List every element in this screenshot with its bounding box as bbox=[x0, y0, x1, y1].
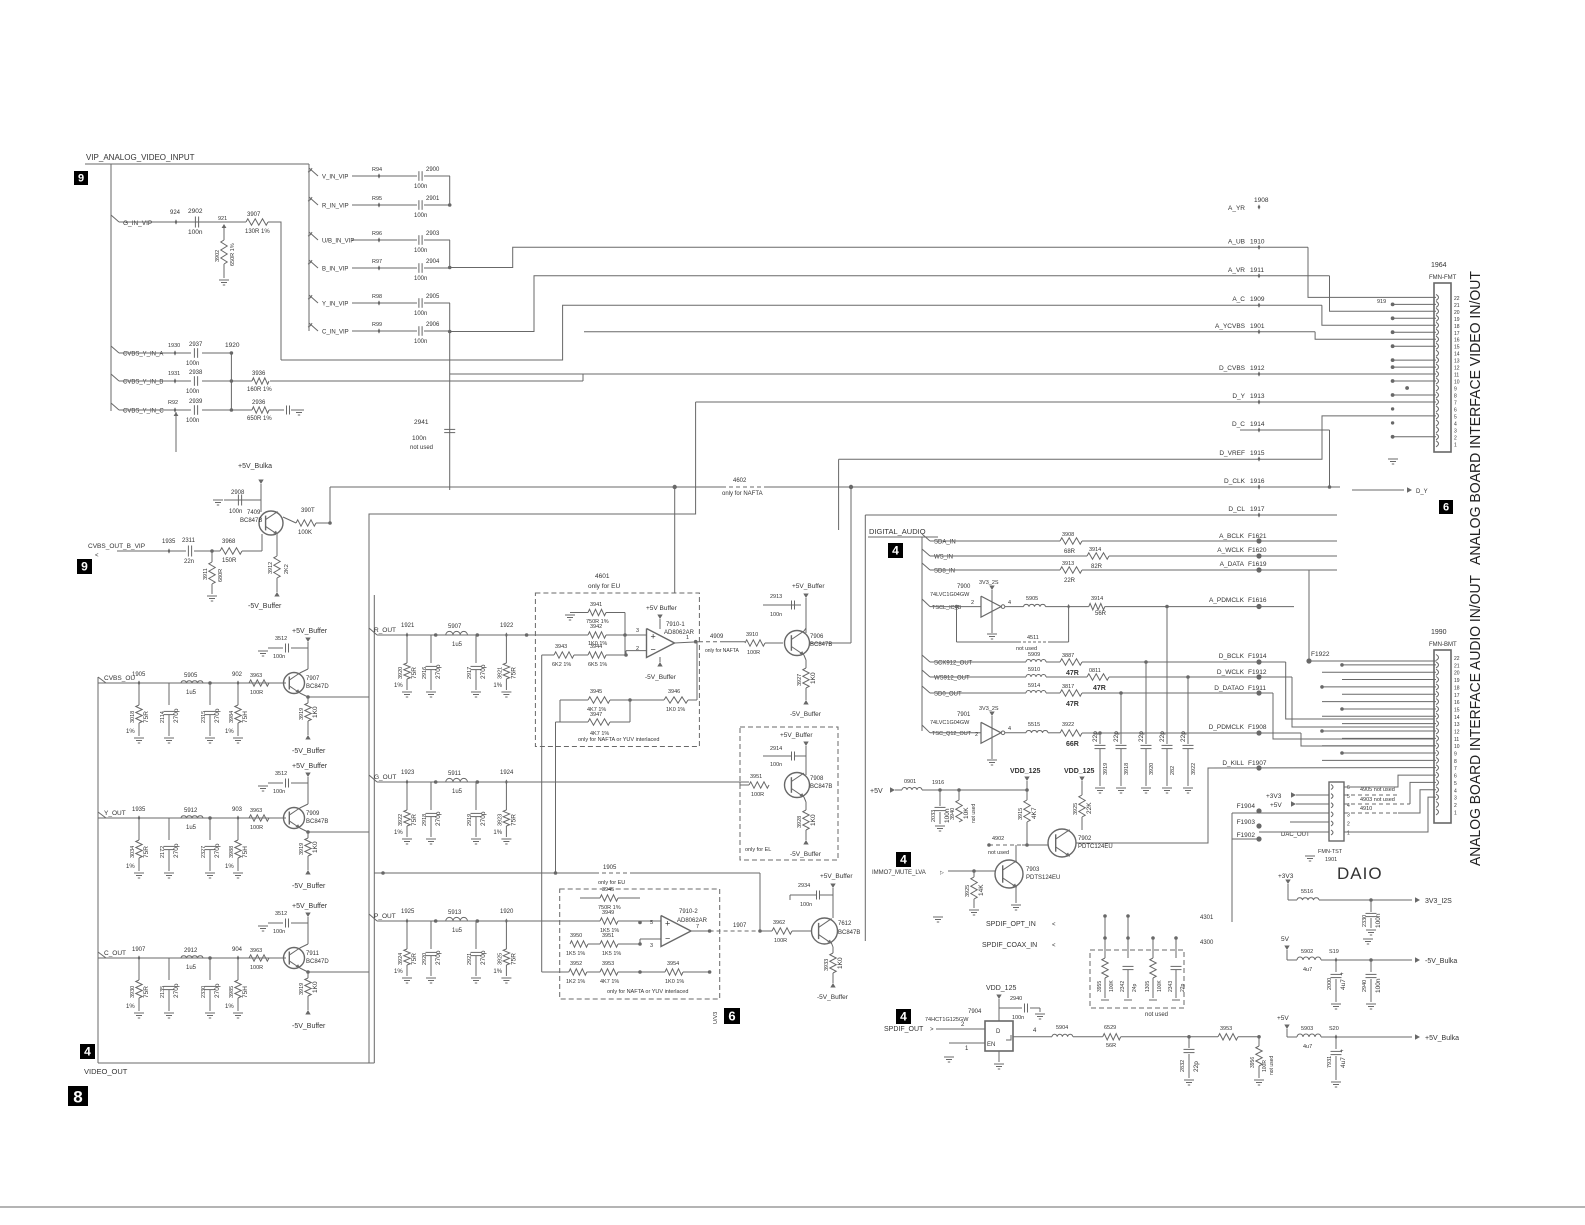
svg-text:3953: 3953 bbox=[602, 961, 614, 967]
svg-text:B_IN_VIP: B_IN_VIP bbox=[322, 267, 348, 273]
svg-text:>: > bbox=[930, 1027, 934, 1033]
wire emitter out to bus bbox=[306, 695, 310, 699]
svg-text:2941: 2941 bbox=[414, 419, 429, 426]
svg-text:5909: 5909 bbox=[1028, 652, 1040, 658]
wire feed 1990 pin 15 bbox=[1342, 708, 1436, 710]
svg-text:100n: 100n bbox=[414, 184, 427, 190]
svg-text:7910-2: 7910-2 bbox=[679, 909, 698, 915]
svg-text:1916: 1916 bbox=[1250, 478, 1265, 485]
row R_OUT bbox=[369, 628, 377, 635]
ground 282 bbox=[1162, 787, 1172, 789]
svg-text:904: 904 bbox=[232, 947, 243, 953]
capacitor small + gnd on CVBS_C bbox=[269, 409, 284, 411]
svg-text:18: 18 bbox=[1454, 685, 1460, 691]
svg-text:A_DATA: A_DATA bbox=[1220, 561, 1245, 568]
svg-text:2033: 2033 bbox=[931, 810, 937, 822]
dashed box only for NAFTA lower bbox=[560, 889, 720, 999]
node R92 bbox=[174, 407, 177, 412]
page ref 4 mute bbox=[896, 852, 911, 867]
pin 17 connector 1990 bbox=[1436, 691, 1439, 697]
svg-text:3912: 3912 bbox=[268, 562, 274, 574]
wire feedback verticals box1 to box3 bbox=[541, 655, 543, 972]
svg-text:7908: 7908 bbox=[810, 776, 824, 782]
svg-text:-5V_Bulka: -5V_Bulka bbox=[1425, 958, 1457, 965]
capacitor C2903 100n bbox=[418, 235, 420, 245]
pin 6 connector 1964 bbox=[1436, 406, 1439, 412]
wire mute collector bbox=[1015, 845, 1017, 861]
svg-text:FMN-FMT: FMN-FMT bbox=[1429, 275, 1457, 281]
svg-text:7612: 7612 bbox=[838, 921, 852, 927]
svg-text:SCK912_OUT: SCK912_OUT bbox=[934, 661, 973, 667]
inductor 5516 bbox=[1297, 898, 1319, 900]
svg-text:3919: 3919 bbox=[299, 708, 305, 720]
resistor 3921 75R R_OUT bbox=[505, 635, 507, 663]
svg-text:3925: 3925 bbox=[965, 885, 971, 897]
svg-text:1907: 1907 bbox=[132, 947, 146, 953]
svg-text:3512: 3512 bbox=[275, 911, 287, 917]
svg-text:VDD_125: VDD_125 bbox=[986, 985, 1016, 992]
svg-text:1%: 1% bbox=[225, 729, 234, 735]
resistor R3913 22R bbox=[1060, 567, 1082, 573]
ground 2330 bbox=[1366, 929, 1376, 931]
wire D_DATAO corner to 1990 bbox=[1273, 693, 1434, 739]
capacitor 7931 4u7 bbox=[1335, 1037, 1337, 1049]
wire stub pin 8 bbox=[1393, 394, 1436, 396]
resistor 3915 4K7 bbox=[1026, 781, 1028, 800]
svg-text:100n: 100n bbox=[229, 509, 242, 515]
capacitor 282 22p bbox=[1165, 605, 1169, 609]
svg-text:+5V: +5V bbox=[1270, 802, 1282, 809]
svg-text:22p: 22p bbox=[1138, 731, 1145, 742]
svg-text:<: < bbox=[1052, 922, 1056, 928]
resistor 3910 100R bbox=[745, 640, 765, 646]
wire mute net 4902 not used bbox=[989, 844, 1022, 846]
svg-text:9: 9 bbox=[81, 560, 88, 574]
svg-text:3922: 3922 bbox=[1191, 763, 1197, 775]
svg-text:-5V_Buffer: -5V_Buffer bbox=[292, 748, 326, 755]
svg-text:12: 12 bbox=[1454, 366, 1460, 372]
svg-text:4: 4 bbox=[900, 1010, 907, 1024]
pin 15 connector 1990 bbox=[1436, 706, 1439, 712]
svg-text:270p: 270p bbox=[173, 708, 180, 723]
inductor 5905 bbox=[1005, 606, 1024, 608]
wire feed 1990 pin 9 bbox=[1342, 752, 1436, 754]
svg-text:2330: 2330 bbox=[201, 986, 207, 998]
svg-text:3910: 3910 bbox=[746, 632, 758, 638]
output row Y_OUT bbox=[98, 812, 106, 818]
wire A_YCVBS bbox=[584, 331, 1315, 333]
wire stub pin 19 bbox=[1393, 317, 1436, 319]
resistor 3951 100R G row bbox=[749, 782, 769, 788]
pin 18 connector 1964 bbox=[1436, 322, 1439, 328]
ground 3018 bbox=[134, 737, 144, 739]
svg-text:1920: 1920 bbox=[500, 909, 514, 915]
power -5V_Buffer row bbox=[305, 1010, 310, 1015]
svg-text:82R: 82R bbox=[1091, 564, 1103, 570]
svg-text:1911: 1911 bbox=[1250, 267, 1264, 274]
svg-text:D_CL: D_CL bbox=[1228, 506, 1245, 513]
svg-text:9: 9 bbox=[1454, 752, 1457, 758]
resistor 3985 75H bbox=[237, 958, 239, 980]
svg-text:1905: 1905 bbox=[603, 865, 617, 871]
capacitor 2000 4u7 electrolytic bbox=[1335, 960, 1337, 972]
ground 7931 bbox=[1331, 1081, 1341, 1083]
svg-text:1%: 1% bbox=[225, 1004, 234, 1010]
pin 2 connector 1964 bbox=[1436, 434, 1439, 440]
svg-text:2940: 2940 bbox=[1010, 996, 1022, 1002]
svg-text:22: 22 bbox=[1454, 656, 1460, 662]
svg-text:270p: 270p bbox=[435, 811, 442, 826]
svg-text:U/B_IN_VIP: U/B_IN_VIP bbox=[322, 239, 354, 245]
pin 14 connector 1990 bbox=[1436, 713, 1439, 719]
svg-text:8: 8 bbox=[1454, 759, 1457, 765]
svg-text:EN: EN bbox=[987, 1042, 995, 1048]
input pin U/B_IN_VIP bbox=[309, 232, 318, 240]
svg-text:2172: 2172 bbox=[160, 846, 166, 858]
resistor 3922 75R G_OUT bbox=[406, 782, 408, 810]
svg-text:D_CLK: D_CLK bbox=[1224, 478, 1246, 485]
svg-text:3949: 3949 bbox=[602, 910, 614, 916]
capacitor 2918 270p G_OUT bbox=[430, 782, 432, 810]
ground cluster bbox=[501, 691, 511, 693]
pin 22 connector 1990 bbox=[1436, 655, 1439, 661]
svg-text:100n: 100n bbox=[1012, 1015, 1024, 1021]
svg-text:22n: 22n bbox=[184, 559, 194, 565]
capacitor 2327 270p bbox=[209, 818, 211, 840]
pin 8 connector 1990 bbox=[1436, 757, 1439, 763]
page ref 9 lower bbox=[77, 559, 92, 574]
svg-text:1%: 1% bbox=[126, 729, 135, 735]
svg-text:1%: 1% bbox=[394, 683, 403, 689]
svg-text:2917: 2917 bbox=[467, 667, 473, 679]
wire G row to A_C feed bbox=[268, 222, 281, 360]
inductor L2912 1u5 bbox=[181, 956, 203, 958]
capacitor 2917 270p R_OUT bbox=[475, 635, 477, 663]
svg-text:22p: 22p bbox=[1092, 731, 1099, 742]
svg-text:7900: 7900 bbox=[957, 584, 971, 590]
resistor 3920 75R R_OUT bbox=[406, 635, 408, 663]
bypass 4511 not used bbox=[956, 607, 958, 642]
svg-text:ANALOG BOARD INTERFACE AUDIO I: ANALOG BOARD INTERFACE AUDIO IN/OUT bbox=[1468, 575, 1484, 866]
wire stub pin 17 bbox=[1393, 331, 1436, 333]
ground R3911 bbox=[207, 595, 217, 597]
wire 4602 feed vertical to box1 bbox=[674, 487, 676, 593]
capacitor 2919 270p G_OUT bbox=[475, 782, 477, 810]
page ref 4 video out bbox=[80, 1044, 95, 1059]
transistor Q7612 BC847B bbox=[812, 918, 838, 944]
node Y_IN_VIP bbox=[378, 300, 381, 305]
resistor 3940 10K not used bbox=[958, 790, 960, 800]
svg-text:3034: 3034 bbox=[130, 846, 136, 858]
arrow +5V_Bulka bbox=[1415, 1034, 1420, 1040]
svg-text:3963: 3963 bbox=[250, 673, 262, 679]
svg-text:100n: 100n bbox=[273, 789, 285, 795]
svg-text:5904: 5904 bbox=[1056, 1025, 1068, 1031]
ground 2135 bbox=[164, 1012, 174, 1014]
svg-text:74LVC1G04GW: 74LVC1G04GW bbox=[930, 592, 970, 598]
ground 2832 bbox=[1184, 1079, 1194, 1081]
svg-text:1%: 1% bbox=[394, 830, 403, 836]
ground C2908 bbox=[213, 499, 223, 501]
svg-text:3922: 3922 bbox=[1062, 722, 1074, 728]
input pin SD8_IN bbox=[922, 563, 930, 570]
resistor 3984 75H bbox=[237, 683, 239, 705]
ground 2033 bbox=[935, 825, 945, 827]
svg-text:24p: 24p bbox=[1132, 983, 1138, 992]
svg-text:BC847B: BC847B bbox=[306, 819, 328, 825]
svg-text:6529: 6529 bbox=[1104, 1025, 1116, 1031]
svg-text:D_PDMCLK: D_PDMCLK bbox=[1209, 724, 1245, 731]
node V_IN_VIP bbox=[378, 173, 381, 178]
pin 5 connector 1990 bbox=[1436, 780, 1439, 786]
wire stub pin 12 bbox=[1393, 366, 1436, 368]
wire left input bus bbox=[110, 164, 112, 411]
svg-text:2: 2 bbox=[1347, 821, 1350, 827]
svg-text:3922: 3922 bbox=[398, 814, 404, 826]
svg-text:1909: 1909 bbox=[1250, 296, 1265, 303]
svg-text:1: 1 bbox=[686, 635, 689, 641]
input pin WS912_OUT bbox=[922, 670, 930, 677]
svg-text:1935: 1935 bbox=[162, 539, 176, 545]
svg-text:1%: 1% bbox=[126, 864, 135, 870]
svg-text:1u5: 1u5 bbox=[186, 965, 197, 971]
svg-text:4K7: 4K7 bbox=[1031, 807, 1038, 819]
svg-text:5516: 5516 bbox=[1301, 889, 1313, 895]
svg-text:3941: 3941 bbox=[590, 602, 602, 608]
resistor 3018 75R bbox=[138, 683, 140, 705]
svg-text:100n: 100n bbox=[414, 311, 427, 317]
svg-text:3968: 3968 bbox=[222, 539, 236, 545]
svg-text:1: 1 bbox=[1454, 442, 1457, 448]
junction dot pin 6 bbox=[1391, 407, 1394, 410]
svg-text:CVBS_Y_IN_C: CVBS_Y_IN_C bbox=[123, 409, 164, 415]
svg-text:1K0: 1K0 bbox=[312, 841, 319, 853]
capacitor 2916 270p R_OUT bbox=[430, 635, 432, 663]
svg-text:3933: 3933 bbox=[824, 959, 830, 971]
svg-text:1901: 1901 bbox=[1250, 323, 1265, 330]
ground 2940b bbox=[1366, 1003, 1376, 1005]
resistor 6529 56R bbox=[1103, 1034, 1121, 1040]
wire emitter out to bus bbox=[306, 970, 310, 974]
node 1923 bbox=[406, 779, 409, 784]
svg-text:3919: 3919 bbox=[1103, 763, 1109, 775]
wire feed 1990 pin 12 bbox=[1322, 730, 1436, 732]
svg-text:22K: 22K bbox=[1086, 802, 1093, 814]
node 1925 bbox=[406, 918, 409, 923]
svg-text:270p: 270p bbox=[480, 811, 487, 826]
svg-text:7911: 7911 bbox=[306, 951, 320, 957]
svg-text:22p: 22p bbox=[1180, 983, 1186, 992]
capacitor 2172 270p bbox=[168, 818, 170, 840]
svg-text:4K7 1%: 4K7 1% bbox=[600, 979, 619, 985]
svg-text:3887: 3887 bbox=[1062, 653, 1074, 659]
svg-text:BC847B: BC847B bbox=[240, 518, 262, 524]
power -5V_Buffer Q7906 bbox=[803, 700, 808, 705]
svg-text:3952: 3952 bbox=[570, 961, 582, 967]
svg-text:D_KILL: D_KILL bbox=[1222, 760, 1244, 767]
svg-text:4u7: 4u7 bbox=[1303, 1044, 1312, 1050]
svg-text:not used: not used bbox=[410, 445, 433, 451]
svg-text:2: 2 bbox=[971, 600, 974, 606]
node 1920 bbox=[476, 919, 480, 923]
svg-text:not used: not used bbox=[1145, 1012, 1168, 1018]
svg-text:22p: 22p bbox=[1113, 731, 1120, 742]
svg-text:3907: 3907 bbox=[247, 212, 261, 218]
input pin G_IN_VIP bbox=[111, 215, 119, 222]
resistor 3924 75R P_OUT bbox=[406, 921, 408, 949]
svg-text:3944: 3944 bbox=[590, 644, 602, 650]
svg-text:4903 not used: 4903 not used bbox=[1360, 797, 1395, 803]
junction dot pin 4 bbox=[1391, 421, 1394, 424]
capacitor C2938 100n bbox=[119, 380, 191, 382]
wire B_IN_VIP bbox=[352, 267, 417, 269]
svg-text:1910: 1910 bbox=[1250, 238, 1265, 245]
svg-text:7: 7 bbox=[1454, 766, 1457, 772]
svg-text:G_IN_VIP: G_IN_VIP bbox=[123, 220, 152, 227]
input pin V_IN_VIP bbox=[309, 168, 318, 176]
wire D_WCLK corner to 1990 bbox=[1292, 677, 1434, 727]
ground cluster bbox=[471, 691, 481, 693]
svg-text:1u5: 1u5 bbox=[452, 928, 463, 934]
capacitor C2904 100n bbox=[418, 263, 420, 273]
svg-text:3963: 3963 bbox=[250, 948, 262, 954]
svg-text:47R: 47R bbox=[1066, 701, 1079, 708]
svg-text:2832: 2832 bbox=[1180, 1060, 1186, 1072]
svg-text:650R 1%: 650R 1% bbox=[230, 243, 236, 266]
ground op-amp box bbox=[570, 612, 588, 614]
svg-text:▷: ▷ bbox=[940, 870, 944, 876]
svg-text:1%: 1% bbox=[126, 1004, 135, 1010]
resistor 3941 750R bbox=[588, 609, 606, 615]
svg-text:2934: 2934 bbox=[798, 883, 810, 889]
svg-text:D_DATAO: D_DATAO bbox=[1214, 685, 1244, 692]
svg-text:AD8062AR: AD8062AR bbox=[677, 918, 708, 924]
svg-text:75R: 75R bbox=[510, 814, 517, 826]
ground 3920 bbox=[1141, 787, 1151, 789]
svg-text:+5V_Buffer: +5V_Buffer bbox=[792, 583, 825, 590]
wire D_CLK / 4602 only for NAFTA bbox=[330, 486, 722, 488]
page ref 4 spdif bbox=[896, 1009, 911, 1024]
pin 9 connector 1964 bbox=[1436, 385, 1439, 391]
svg-text:DIGITAL_AUDIO: DIGITAL_AUDIO bbox=[869, 527, 926, 536]
svg-text:3: 3 bbox=[650, 943, 653, 949]
svg-text:270p: 270p bbox=[214, 843, 221, 858]
svg-text:5905: 5905 bbox=[184, 673, 198, 679]
svg-text:only for EU: only for EU bbox=[588, 583, 620, 590]
svg-text:CVBS_Y_IN_A: CVBS_Y_IN_A bbox=[123, 352, 163, 358]
pin 8 connector 1964 bbox=[1436, 392, 1439, 398]
svg-text:650R 1%: 650R 1% bbox=[247, 416, 272, 422]
wire D_CL long bbox=[865, 514, 1337, 516]
svg-text:5905: 5905 bbox=[1026, 596, 1038, 602]
wire D_Y long bbox=[696, 401, 1436, 403]
svg-text:3985: 3985 bbox=[229, 986, 235, 998]
svg-text:3943: 3943 bbox=[555, 644, 567, 650]
svg-text:19: 19 bbox=[1454, 678, 1460, 684]
ground 2000 bbox=[1331, 1003, 1341, 1005]
svg-text:D_C: D_C bbox=[1232, 421, 1245, 428]
ground U7901 bbox=[991, 716, 993, 759]
svg-text:+5V_Buffer: +5V_Buffer bbox=[292, 903, 328, 910]
svg-text:2901: 2901 bbox=[426, 196, 440, 202]
svg-text:A_YR: A_YR bbox=[1228, 205, 1245, 212]
svg-text:FMN-TST: FMN-TST bbox=[1318, 849, 1343, 855]
svg-text:S20: S20 bbox=[1329, 1026, 1339, 1032]
svg-text:47R: 47R bbox=[1066, 670, 1079, 677]
svg-text:2903: 2903 bbox=[426, 231, 440, 237]
svg-text:CVBS_OU: CVBS_OU bbox=[104, 675, 135, 682]
resistor 3034 75R bbox=[138, 818, 140, 840]
wire emitter out to bus bbox=[306, 830, 310, 834]
resistor 3930 75R bbox=[138, 958, 140, 980]
svg-text:2: 2 bbox=[636, 646, 639, 652]
pin 17 connector 1964 bbox=[1436, 329, 1439, 335]
svg-text:+3V3: +3V3 bbox=[1266, 793, 1282, 800]
svg-text:4601: 4601 bbox=[595, 573, 610, 580]
wire stub pin 15 bbox=[1393, 345, 1436, 347]
svg-text:2900: 2900 bbox=[426, 167, 440, 173]
node 1905 bbox=[138, 680, 141, 685]
svg-text:+: + bbox=[1340, 972, 1344, 978]
svg-text:1: 1 bbox=[1347, 831, 1350, 837]
svg-text:2114: 2114 bbox=[160, 711, 166, 723]
svg-text:6: 6 bbox=[1454, 774, 1457, 780]
svg-text:3947: 3947 bbox=[590, 712, 602, 718]
svg-text:100R: 100R bbox=[751, 792, 764, 798]
svg-text:3955: 3955 bbox=[1097, 981, 1103, 992]
svg-text:3918: 3918 bbox=[1124, 763, 1130, 775]
resistor 3955 100K not used bbox=[1104, 938, 1106, 958]
svg-text:11: 11 bbox=[1454, 373, 1459, 379]
resistor R3907 130R bbox=[224, 221, 246, 223]
wire feed 1990 pin 10 bbox=[1322, 745, 1436, 747]
svg-text:7904: 7904 bbox=[968, 1009, 982, 1015]
capacitor 2832 22p bbox=[1188, 1037, 1190, 1048]
svg-text:6: 6 bbox=[1347, 785, 1350, 791]
capacitor 2343 22p not used bbox=[1175, 938, 1177, 958]
capacitor 2315 270p bbox=[209, 683, 211, 705]
svg-text:D_BCLK: D_BCLK bbox=[1219, 653, 1245, 660]
svg-text:19: 19 bbox=[1454, 317, 1460, 323]
wire D_PDMCLK corner to 1990 bbox=[1301, 733, 1434, 746]
row G_OUT bbox=[369, 775, 377, 782]
wire Y to C join bbox=[449, 303, 451, 332]
ground R3902 bbox=[219, 279, 229, 281]
resistor 3942 1K0 series bbox=[588, 632, 606, 638]
digital audio box border bbox=[864, 515, 866, 941]
svg-text:100R: 100R bbox=[250, 965, 263, 971]
svg-text:100n: 100n bbox=[800, 902, 812, 908]
svg-text:2912: 2912 bbox=[184, 948, 198, 954]
wire V_IN_VIP bbox=[352, 175, 417, 177]
inductor 5904 bbox=[1052, 1034, 1073, 1037]
svg-text:4: 4 bbox=[900, 853, 907, 867]
svg-text:2904: 2904 bbox=[426, 259, 440, 265]
svg-text:5911: 5911 bbox=[448, 771, 462, 777]
svg-text:75R: 75R bbox=[143, 986, 150, 998]
resistor 100R base bbox=[249, 955, 269, 961]
wire D_KILL bbox=[1076, 768, 1436, 843]
svg-text:0811: 0811 bbox=[1089, 668, 1101, 674]
svg-text:2330: 2330 bbox=[1362, 915, 1368, 927]
svg-text:+5V: +5V bbox=[1277, 1015, 1289, 1022]
svg-text:4: 4 bbox=[1454, 421, 1457, 427]
inductor L5911 1u5 bbox=[434, 780, 438, 784]
capacitor 3922 22p bbox=[1186, 675, 1190, 679]
svg-text:100R: 100R bbox=[1262, 1060, 1268, 1072]
svg-text:160R 1%: 160R 1% bbox=[247, 387, 272, 393]
svg-text:AD8062AR: AD8062AR bbox=[664, 630, 695, 636]
